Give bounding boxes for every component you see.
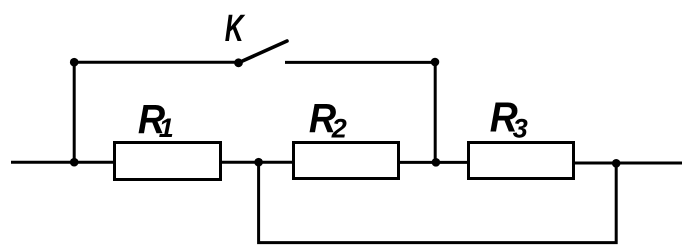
- wire: output lead right: [574, 162, 682, 165]
- wire: between R2 and R3: [399, 161, 469, 164]
- junction dot top-right: [431, 58, 440, 67]
- svg-text:1: 1: [159, 113, 174, 143]
- junction dot main line at x=258: [254, 158, 263, 167]
- switch K blade: [238, 41, 287, 63]
- junction dot main line at x=616: [612, 159, 621, 168]
- wire: input lead left: [11, 161, 114, 164]
- junction dot main line at x=436: [432, 158, 441, 167]
- wire: top bypass horizontal right of switch: [285, 61, 435, 64]
- svg-text:2: 2: [331, 113, 347, 143]
- wire: top bypass right vertical: [434, 62, 437, 162]
- resistor R2: [294, 143, 399, 179]
- junction dot switch pivot: [234, 58, 243, 67]
- svg-text:3: 3: [513, 114, 528, 144]
- resistor R3: [469, 143, 574, 179]
- wire: bottom bypass (left vertical, bottom run, right vertical): [259, 162, 617, 242]
- svg-text:K: K: [225, 8, 246, 50]
- wire: top bypass left vertical: [73, 62, 76, 162]
- wire: between R1 and R2: [221, 161, 294, 164]
- junction dot top-left: [70, 58, 79, 67]
- junction dot main line at x=74: [70, 158, 79, 167]
- resistor R1: [115, 143, 221, 180]
- wire: top bypass horizontal left of switch: [74, 61, 238, 64]
